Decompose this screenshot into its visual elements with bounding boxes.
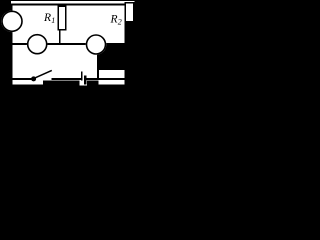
meter circle 3 (middle wire, right) [86,34,107,55]
white margin below bottom wire, left [11,80,43,84]
svg-text:R: R [43,12,51,24]
svg-text:1: 1 [51,16,55,25]
wire left border [11,30,13,86]
wire right border [125,20,127,81]
transparent background (renders black) [0,0,137,93]
switch pivot dot [31,76,36,81]
wire stub to source circle [11,6,13,13]
wire top [11,4,127,6]
battery long plate [81,71,83,80]
white interior of lower-left loop area [11,45,99,80]
resistor R1 box [58,6,66,29]
meter circle 2 (middle wire, left) [27,34,48,55]
label R2 [110,14,122,27]
white region bottom-right corner [99,70,125,84]
wire riser from circle3 to bottom wire [97,52,99,79]
wire bottom left segment [11,78,32,80]
svg-text:2: 2 [118,17,122,26]
svg-text:R: R [110,14,118,26]
battery short thick plate [84,75,87,84]
label R1 [43,12,55,25]
wire middle [11,43,127,45]
white margin below battery [80,80,87,85]
resistor R1 top stub [62,5,64,7]
switch blade [35,70,52,77]
resistor R1 bottom lead [59,30,61,44]
white zone around resistor R2 [126,1,135,22]
black pocket below middle wire right of circle3 [99,46,125,71]
white interior of upper loop [11,1,127,45]
wire bottom middle segment [52,78,82,80]
wire bottom right segment [87,78,127,80]
resistor R2 box [125,3,134,22]
source circle 1 (top left) [1,10,23,32]
